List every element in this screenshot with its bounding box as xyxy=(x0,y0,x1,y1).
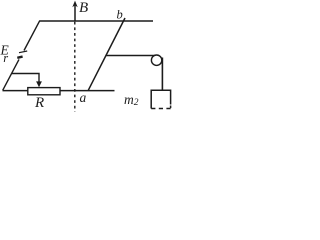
resistor R box xyxy=(28,88,60,95)
wire: bottom rail right segment xyxy=(60,90,115,92)
wire: top rail xyxy=(40,20,154,22)
svg-text:B: B xyxy=(79,0,88,16)
mass m2 box (bottom edge dashed) xyxy=(151,90,170,108)
string: vertical segment to mass xyxy=(161,58,163,91)
dashed vertical field line xyxy=(74,22,76,112)
B field arrow shaft xyxy=(74,3,76,21)
svg-text:m2: m2 xyxy=(124,92,139,108)
B field arrowhead xyxy=(72,1,77,8)
wire: bottom rail left segment xyxy=(3,90,29,92)
svg-text:R: R xyxy=(34,95,44,111)
svg-text:a: a xyxy=(80,90,87,105)
wire: rheostat slider tap xyxy=(12,74,39,83)
svg-text:r: r xyxy=(3,51,8,65)
wire: left slant upper battery lead xyxy=(24,21,40,51)
svg-text:b: b xyxy=(117,7,123,21)
wire: left slant lower battery lead xyxy=(3,59,19,90)
battery E: long plate xyxy=(19,51,27,53)
rheostat slider arrowhead xyxy=(36,81,42,87)
pulley xyxy=(151,55,161,65)
rod ab xyxy=(88,18,125,91)
string: horizontal segment to pulley xyxy=(106,55,157,57)
battery E: short thick plate xyxy=(17,57,22,58)
